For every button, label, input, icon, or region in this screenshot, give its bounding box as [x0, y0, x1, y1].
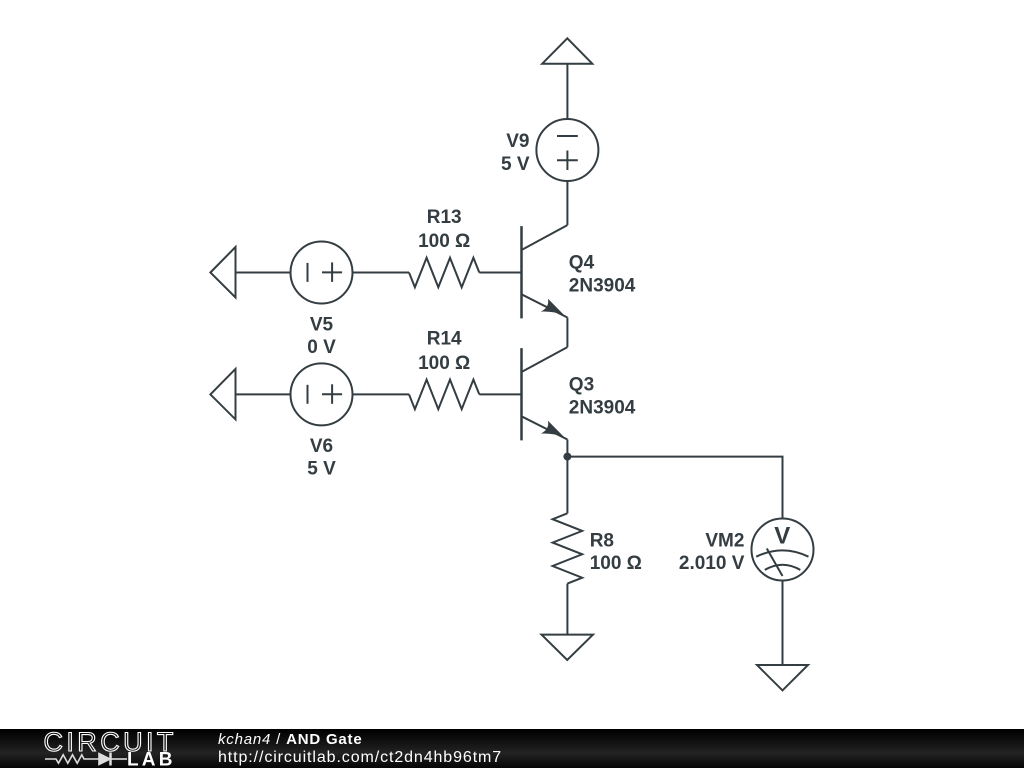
label V9 5 V	[501, 131, 530, 175]
wire VCC to V9	[566, 64, 568, 119]
wire R13 to Q4 base	[479, 272, 521, 274]
voltage source V5	[291, 242, 353, 304]
label V inside VM2	[774, 523, 790, 550]
wire node to VM2	[567, 457, 782, 519]
svg-text:Q3: Q3	[569, 375, 594, 396]
svg-text:5 V: 5 V	[501, 154, 530, 175]
voltmeter VM2	[752, 519, 814, 581]
footer bar	[0, 729, 1024, 768]
label R13 100 Ohm	[418, 207, 470, 252]
CircuitLab logo	[0, 729, 200, 768]
svg-text:R8: R8	[590, 530, 614, 551]
wire port to V5	[236, 272, 291, 274]
svg-text:100 Ω: 100 Ω	[418, 353, 470, 374]
VCC power supply arrow	[542, 38, 592, 63]
label V5 0 V	[307, 314, 336, 358]
label V6 5 V	[307, 436, 336, 479]
svg-text:R13: R13	[427, 207, 462, 228]
svg-text:100 Ω: 100 Ω	[590, 553, 642, 574]
logo resistor-diode glyph	[45, 753, 127, 766]
svg-text:R14: R14	[427, 329, 462, 350]
svg-text:2N3904: 2N3904	[569, 398, 636, 419]
svg-text:0 V: 0 V	[307, 337, 336, 358]
svg-text:Q4: Q4	[569, 253, 595, 274]
wire Q3 emitter to node	[566, 440, 568, 457]
svg-text:V6: V6	[310, 436, 333, 457]
wire R8 to ground	[566, 584, 568, 635]
svg-text:V5: V5	[310, 314, 334, 335]
wire V6 to R14	[353, 393, 410, 395]
wire R14 to Q3 base	[479, 393, 521, 395]
input port terminal B	[210, 369, 235, 420]
resistor R14	[409, 380, 479, 410]
wire node to R8	[566, 457, 568, 514]
svg-text:LAB: LAB	[127, 750, 176, 768]
label Q3 2N3904	[569, 375, 636, 419]
svg-text:5 V: 5 V	[307, 459, 336, 480]
svg-text:VM2: VM2	[705, 530, 744, 551]
transistor Q3	[522, 347, 568, 440]
input port terminal A	[210, 247, 235, 298]
svg-text:2.010 V: 2.010 V	[679, 553, 745, 574]
svg-text:100 Ω: 100 Ω	[418, 231, 470, 252]
wire Q4 emitter to Q3 collector	[566, 318, 568, 348]
svg-text:V: V	[774, 523, 790, 550]
wire VM2 to ground	[782, 581, 784, 666]
label R8 100 Ohm	[590, 530, 642, 574]
label R14 100 Ohm	[418, 329, 470, 374]
voltage source V6	[291, 363, 353, 425]
ground under VM2	[757, 665, 808, 690]
resistor R8	[553, 513, 583, 583]
resistor R13	[409, 258, 479, 288]
node junction dot	[563, 453, 571, 461]
svg-text:2N3904: 2N3904	[569, 276, 636, 297]
label VM2 2.010 V	[679, 530, 745, 574]
svg-text:V9: V9	[506, 131, 529, 152]
ground under R8	[542, 635, 594, 660]
wire V5 to R13	[353, 272, 410, 274]
wire port to V6	[236, 393, 291, 395]
wire V9 to Q4 collector	[566, 181, 568, 225]
voltage source V9	[536, 119, 598, 181]
footer line 2: URL	[218, 750, 502, 766]
transistor Q4	[522, 225, 568, 318]
label Q4 2N3904	[569, 253, 636, 297]
footer line 1: kchan4 / AND Gate	[218, 732, 363, 747]
